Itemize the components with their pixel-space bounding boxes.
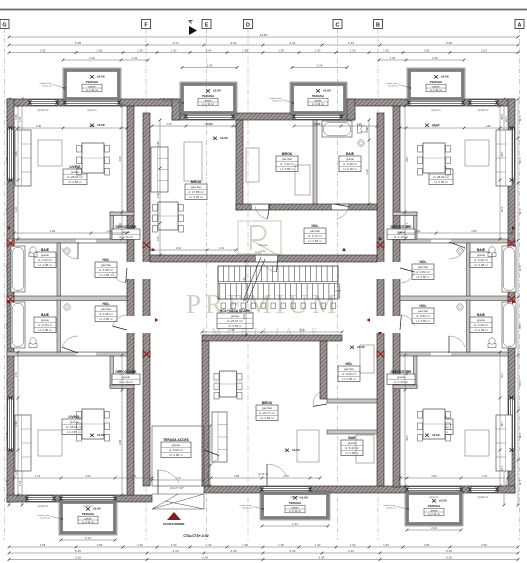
svg-text:izolatie term.: izolatie term. — [384, 504, 397, 507]
svg-text:4.00: 4.00 — [405, 156, 409, 162]
svg-text:gresie: gresie — [41, 253, 50, 257]
svg-text:A: 2.16 m²: A: 2.16 m² — [289, 509, 301, 513]
svg-text:gresie: gresie — [231, 314, 240, 318]
svg-text:BAIE: BAIE — [477, 313, 486, 317]
svg-text:TERASA: TERASA — [289, 501, 302, 505]
svg-text:ACCES IMOBIL: ACCES IMOBIL — [163, 522, 186, 526]
svg-text:TERASA ACCES: TERASA ACCES — [163, 438, 190, 442]
svg-text:gresie: gresie — [348, 441, 357, 445]
svg-text:parchet: parchet — [282, 157, 292, 161]
svg-text:±0.00: ±0.00 — [439, 499, 447, 503]
svg-text:1.70: 1.70 — [518, 158, 522, 164]
svg-text:204.10° 105°: 204.10° 105° — [170, 487, 184, 490]
svg-text:hp=30 cm: hp=30 cm — [40, 518, 50, 520]
svg-text:5.25: 5.25 — [446, 556, 452, 560]
svg-text:hp=90 cm: hp=90 cm — [478, 109, 489, 112]
svg-text:1.70: 1.70 — [500, 372, 504, 378]
svg-text:2.24: 2.24 — [289, 41, 295, 45]
svg-text:0.80: 0.80 — [500, 114, 504, 120]
svg-text:H: 2.65 m: H: 2.65 m — [416, 275, 430, 279]
svg-text:1.95: 1.95 — [500, 421, 504, 427]
svg-text:D: D — [246, 23, 250, 29]
svg-text:2.20: 2.20 — [518, 323, 522, 329]
svg-text:1.20: 1.20 — [156, 236, 160, 242]
svg-text:hp=30 cm: hp=30 cm — [388, 86, 398, 88]
svg-text:1.30: 1.30 — [405, 370, 409, 376]
svg-text:A: 5.40 m²: A: 5.40 m² — [345, 446, 359, 450]
svg-text:2.95: 2.95 — [471, 229, 477, 233]
svg-text:izolatie term.: izolatie term. — [240, 504, 253, 507]
svg-text:3.34: 3.34 — [202, 556, 208, 560]
svg-text:2.00: 2.00 — [85, 474, 91, 478]
svg-text:1.80: 1.80 — [36, 124, 42, 128]
svg-text:izolatie term.: izolatie term. — [386, 82, 399, 85]
svg-text:2.55: 2.55 — [40, 543, 46, 547]
svg-text:H: 2.65 m: H: 2.65 m — [416, 319, 430, 323]
svg-text:1.55: 1.55 — [504, 117, 508, 123]
svg-text:1.04: 1.04 — [390, 56, 396, 60]
svg-text:A: 3.34 m²: A: 3.34 m² — [38, 258, 52, 262]
svg-text:1.80: 1.80 — [207, 122, 213, 126]
svg-text:2.13: 2.13 — [172, 41, 178, 45]
svg-text:1.70: 1.70 — [14, 469, 18, 475]
svg-text:A: 1.10 m²: A: 1.10 m² — [394, 380, 408, 384]
svg-text:A: 7.40 m²: A: 7.40 m² — [280, 162, 294, 166]
svg-text:H: 2.48 m: H: 2.48 m — [38, 263, 52, 267]
svg-text:2.20: 2.20 — [89, 124, 95, 128]
svg-text:HOL: HOL — [312, 224, 319, 228]
svg-text:parchet: parchet — [191, 185, 201, 189]
svg-text:chiuveta: chiuveta — [259, 244, 269, 247]
svg-text:H: 2.65 m: H: 2.65 m — [434, 180, 448, 184]
svg-text:gresie: gresie — [397, 375, 406, 379]
svg-text:B: B — [376, 23, 380, 29]
svg-text:1.70: 1.70 — [518, 480, 522, 486]
svg-text:A: 26.07 m²: A: 26.07 m² — [227, 319, 243, 323]
svg-text:1.80: 1.80 — [97, 543, 103, 547]
svg-text:hp=0 cm: hp=0 cm — [431, 109, 440, 112]
svg-text:A: 4.05 m²: A: 4.05 m² — [99, 312, 113, 316]
svg-text:LIVING: LIVING — [70, 165, 81, 169]
svg-text:A: 2.16 m²: A: 2.16 m² — [428, 512, 440, 516]
svg-text:1.70: 1.70 — [14, 372, 18, 378]
svg-text:1.85: 1.85 — [234, 474, 240, 478]
svg-text:H: 2.65 m: H: 2.65 m — [260, 416, 274, 420]
svg-text:A: 3.34 m²: A: 3.34 m² — [38, 323, 52, 327]
svg-text:3.95: 3.95 — [118, 439, 122, 445]
svg-text:1.30: 1.30 — [383, 543, 389, 547]
svg-text:1.30: 1.30 — [383, 49, 389, 53]
svg-text:A: 3.40 m²: A: 3.40 m² — [343, 162, 357, 166]
svg-text:±0.00: ±0.00 — [97, 123, 105, 127]
svg-text:2.24: 2.24 — [292, 522, 298, 526]
svg-text:1.04: 1.04 — [132, 56, 138, 60]
svg-text:A: 3.40 m²: A: 3.40 m² — [474, 258, 488, 262]
svg-text:H: 2.65 m: H: 2.65 m — [280, 167, 294, 171]
svg-text:±0.00: ±0.00 — [441, 75, 449, 79]
svg-text:1.30: 1.30 — [137, 49, 143, 53]
svg-text:BAIE: BAIE — [346, 152, 355, 156]
svg-text:parchet: parchet — [418, 265, 428, 269]
svg-text:hp/45 cm: hp/45 cm — [258, 473, 268, 476]
svg-text:TERASA: TERASA — [86, 80, 99, 84]
svg-text:1.35: 1.35 — [356, 122, 362, 126]
svg-text:4.10: 4.10 — [260, 249, 266, 253]
svg-text:1.70: 1.70 — [500, 465, 504, 471]
svg-text:1.80: 1.80 — [485, 124, 491, 128]
svg-text:1.30: 1.30 — [350, 49, 356, 53]
svg-text:2.13: 2.13 — [172, 549, 178, 553]
svg-text:3.95: 3.95 — [405, 435, 409, 441]
svg-text:A: 3.82 m²: A: 3.82 m² — [169, 448, 183, 452]
svg-text:2.20: 2.20 — [14, 206, 18, 212]
svg-text:A: 1.10 m²: A: 1.10 m² — [119, 235, 133, 239]
svg-text:BAIE: BAIE — [477, 248, 486, 252]
svg-text:izolatie term.: izolatie term. — [38, 514, 51, 517]
svg-text:2.15: 2.15 — [518, 209, 522, 215]
svg-text:HOL: HOL — [420, 260, 427, 264]
svg-text:2.40: 2.40 — [365, 169, 369, 175]
svg-text:2.24: 2.24 — [85, 536, 91, 540]
svg-text:TERASA: TERASA — [202, 94, 215, 98]
svg-text:±0.00: ±0.00 — [97, 75, 105, 79]
svg-text:2.05: 2.05 — [156, 192, 160, 198]
svg-text:1.95: 1.95 — [500, 151, 504, 157]
svg-text:hp=30 cm: hp=30 cm — [386, 508, 396, 510]
svg-text:parchet: parchet — [310, 229, 320, 233]
svg-text:H: 2.65 m: H: 2.65 m — [189, 195, 203, 199]
svg-text:A: 28.02 m²: A: 28.02 m² — [433, 175, 449, 179]
svg-text:E: E — [205, 23, 209, 29]
svg-text:A: 4.72 m²: A: 4.72 m² — [308, 234, 322, 238]
svg-text:H: 2.48 m: H: 2.48 m — [38, 328, 52, 332]
svg-text:1.95: 1.95 — [14, 151, 18, 157]
svg-text:A: 3.40 m²: A: 3.40 m² — [474, 323, 488, 327]
svg-text:BAR: BAR — [348, 436, 356, 440]
svg-text:0.80: 0.80 — [14, 114, 18, 120]
svg-text:A: 3.60 m²: A: 3.60 m² — [342, 372, 356, 376]
svg-text:2.53: 2.53 — [481, 49, 487, 53]
svg-text:A: 1.10 m²: A: 1.10 m² — [119, 380, 133, 384]
svg-text:1.38: 1.38 — [278, 49, 284, 53]
svg-text:1.80: 1.80 — [424, 49, 430, 53]
svg-text:CTA=CTS+-0.52: CTA=CTS+-0.52 — [183, 534, 208, 538]
svg-text:hp=90 cm: hp=90 cm — [38, 505, 49, 508]
svg-text:hp=30 cm: hp=30 cm — [42, 86, 52, 88]
svg-text:1.30: 1.30 — [137, 543, 143, 547]
svg-text:±0.00: ±0.00 — [213, 89, 221, 93]
svg-text:H: 2.48 m: H: 2.48 m — [474, 263, 488, 267]
svg-text:1.35: 1.35 — [131, 474, 137, 478]
svg-text:BIROU: BIROU — [191, 180, 202, 184]
svg-text:TERASA: TERASA — [428, 504, 441, 508]
svg-text:±0.00: ±0.00 — [220, 136, 228, 140]
svg-text:H: 2.65 m: H: 2.65 m — [308, 239, 322, 243]
svg-text:A: 2.16 m²: A: 2.16 m² — [430, 88, 442, 92]
svg-text:±0.00: ±0.00 — [357, 345, 365, 349]
svg-text:gresie: gresie — [122, 375, 131, 379]
svg-text:BIROU: BIROU — [262, 401, 273, 405]
svg-text:2.20: 2.20 — [500, 207, 504, 213]
svg-text:H: 2.65 m: H: 2.65 m — [342, 377, 356, 381]
svg-text:±0.00: ±0.00 — [432, 433, 440, 437]
svg-text:1.40: 1.40 — [315, 49, 321, 53]
svg-text:1.80: 1.80 — [315, 122, 321, 126]
svg-text:hp=30 cm: hp=30 cm — [272, 101, 282, 103]
svg-text:C: C — [336, 23, 340, 29]
svg-text:2.55: 2.55 — [40, 49, 46, 53]
svg-text:H: 2.65 m: H: 2.65 m — [228, 324, 242, 328]
svg-text:1.00: 1.00 — [118, 222, 122, 228]
svg-text:1.38: 1.38 — [242, 49, 248, 53]
svg-text:hp=90 cm: hp=90 cm — [478, 496, 489, 499]
svg-text:2.10: 2.10 — [518, 380, 522, 386]
svg-text:HOL: HOL — [346, 362, 353, 366]
svg-text:1.30: 1.30 — [118, 369, 122, 375]
svg-text:1.45: 1.45 — [518, 116, 522, 122]
svg-text:parchet: parchet — [418, 309, 428, 313]
svg-text:1.55: 1.55 — [18, 116, 22, 122]
svg-text:1.38: 1.38 — [242, 543, 248, 547]
svg-text:BIROU: BIROU — [282, 152, 293, 156]
svg-text:1.50: 1.50 — [206, 443, 210, 449]
svg-text:H: 2.65 m: H: 2.65 m — [169, 453, 183, 457]
svg-text:4.00: 4.00 — [118, 156, 122, 162]
svg-text:A: 3.83 m²: A: 3.83 m² — [416, 314, 430, 318]
svg-text:5.25: 5.25 — [446, 549, 452, 553]
svg-text:2.53: 2.53 — [481, 543, 487, 547]
svg-text:2.20: 2.20 — [432, 56, 438, 60]
svg-text:0.75: 0.75 — [206, 473, 210, 479]
svg-text:5.25: 5.25 — [75, 556, 81, 560]
svg-text:HOL: HOL — [103, 302, 110, 306]
svg-text:A: 28.02 m²: A: 28.02 m² — [66, 425, 82, 429]
svg-text:H: 2.40 m: H: 2.40 m — [343, 167, 357, 171]
svg-text:A: 2.16 m²: A: 2.16 m² — [312, 102, 324, 106]
svg-text:1.40: 1.40 — [206, 543, 212, 547]
svg-text:2.13: 2.13 — [348, 41, 354, 45]
svg-text:2.04: 2.04 — [431, 526, 437, 530]
svg-text:HOL: HOL — [420, 304, 427, 308]
svg-text:0.75: 0.75 — [365, 127, 369, 133]
svg-text:BAIE: BAIE — [41, 248, 50, 252]
svg-text:hp=0 cm: hp=0 cm — [83, 505, 92, 508]
svg-text:parchet: parchet — [262, 406, 272, 410]
svg-text:5.25: 5.25 — [446, 41, 452, 45]
svg-text:HOL: HOL — [103, 258, 110, 262]
svg-text:gresie: gresie — [477, 318, 486, 322]
svg-text:H: 2.65 m: H: 2.65 m — [99, 317, 113, 321]
svg-text:3.00: 3.00 — [299, 328, 305, 332]
svg-text:gresie: gresie — [477, 253, 486, 257]
svg-text:8.40: 8.40 — [335, 289, 341, 293]
svg-text:A: A — [518, 23, 522, 29]
svg-text:1.41: 1.41 — [106, 229, 112, 233]
svg-text:±0.00: ±0.00 — [292, 448, 300, 452]
svg-text:A: 2.16 m²: A: 2.16 m² — [86, 88, 98, 92]
svg-text:1.85: 1.85 — [518, 433, 522, 439]
svg-text:±0.00: ±0.00 — [97, 433, 105, 437]
svg-text:2.15: 2.15 — [518, 266, 522, 272]
svg-text:parchet: parchet — [101, 263, 111, 267]
svg-text:2.95: 2.95 — [50, 229, 56, 233]
svg-text:1.80: 1.80 — [156, 141, 160, 147]
svg-text:A: 2.16 m²: A: 2.16 m² — [202, 102, 214, 106]
svg-text:1.62: 1.62 — [18, 480, 22, 486]
svg-text:1.38: 1.38 — [278, 543, 284, 547]
svg-text:1.10: 1.10 — [219, 246, 225, 250]
svg-text:hp=30 cm: hp=30 cm — [242, 508, 252, 510]
svg-text:gresie: gresie — [41, 318, 50, 322]
svg-text:parchet: parchet — [101, 307, 111, 311]
svg-text:hp=0 cm: hp=0 cm — [429, 496, 438, 499]
svg-text:1.35: 1.35 — [242, 314, 246, 320]
svg-text:2.15: 2.15 — [230, 549, 236, 553]
svg-text:2.04: 2.04 — [207, 64, 213, 68]
svg-text:19.50: 19.50 — [260, 33, 268, 37]
svg-text:1.00: 1.00 — [405, 223, 409, 229]
svg-text:2.15: 2.15 — [289, 549, 295, 553]
svg-text:1.80: 1.80 — [424, 543, 430, 547]
svg-text:1.70: 1.70 — [35, 474, 41, 478]
svg-text:1.30: 1.30 — [350, 543, 356, 547]
svg-text:5.25: 5.25 — [75, 41, 81, 45]
svg-text:A: 20.77 m²: A: 20.77 m² — [259, 411, 275, 415]
svg-text:A: 28.02 m²: A: 28.02 m² — [67, 175, 83, 179]
svg-text:A: 17.88 m²: A: 17.88 m² — [188, 190, 204, 194]
svg-text:TERASA: TERASA — [82, 512, 95, 516]
svg-text:1.41: 1.41 — [415, 229, 421, 233]
svg-text:2.26: 2.26 — [229, 328, 235, 332]
svg-text:izolatie term.: izolatie term. — [160, 97, 173, 100]
svg-text:±0.00: ±0.00 — [323, 89, 331, 93]
svg-text:±0.00: ±0.00 — [93, 507, 101, 511]
svg-text:H: 2.48 m: H: 2.48 m — [474, 328, 488, 332]
svg-text:H: 2.65 m: H: 2.65 m — [67, 430, 81, 434]
svg-text:A: 2.16 m²: A: 2.16 m² — [82, 520, 94, 524]
svg-text:1.70: 1.70 — [175, 476, 181, 480]
svg-text:H: 2.65 m: H: 2.65 m — [68, 180, 82, 184]
svg-text:BAIE: BAIE — [41, 313, 50, 317]
svg-text:1.95: 1.95 — [14, 421, 18, 427]
svg-text:H: 2.65 m: H: 2.65 m — [99, 273, 113, 277]
svg-text:1.40: 1.40 — [315, 543, 321, 547]
svg-text:PREMIUM: PREMIUM — [186, 289, 340, 319]
svg-text:TERASA: TERASA — [312, 94, 325, 98]
svg-text:TERASA: TERASA — [430, 80, 443, 84]
svg-text:2.24: 2.24 — [230, 41, 236, 45]
svg-text:3.34: 3.34 — [318, 556, 324, 560]
svg-text:2.04: 2.04 — [317, 64, 323, 68]
svg-text:1.30: 1.30 — [171, 49, 177, 53]
svg-text:2.20: 2.20 — [432, 124, 438, 128]
svg-text:2.20: 2.20 — [89, 56, 95, 60]
svg-text:1.30: 1.30 — [171, 543, 177, 547]
svg-text:izolatie term.: izolatie term. — [270, 97, 283, 100]
svg-text:1.40: 1.40 — [206, 49, 212, 53]
svg-text:2.00: 2.00 — [431, 474, 437, 478]
svg-text:2.13: 2.13 — [348, 549, 354, 553]
svg-text:2.10: 2.10 — [176, 246, 182, 250]
svg-text:1.25: 1.25 — [166, 122, 172, 126]
svg-text:G: G — [2, 23, 6, 29]
svg-text:hp=0 cm: hp=0 cm — [290, 496, 299, 499]
svg-text:izolatie term.: izolatie term. — [40, 82, 53, 85]
svg-text:1.70: 1.70 — [482, 474, 488, 478]
svg-text:gresie: gresie — [346, 157, 355, 161]
svg-text:gresie: gresie — [172, 443, 181, 447]
svg-text:±0.00: ±0.00 — [300, 496, 308, 500]
svg-text:hp=30 cm: hp=30 cm — [162, 101, 172, 103]
svg-text:A: 4.05 m²: A: 4.05 m² — [99, 268, 113, 272]
svg-text:A: 3.83 m²: A: 3.83 m² — [416, 270, 430, 274]
svg-text:2.50: 2.50 — [283, 474, 289, 478]
svg-text:1.43: 1.43 — [242, 277, 246, 283]
svg-text:5.25: 5.25 — [75, 549, 81, 553]
svg-text:gresie: gresie — [71, 170, 80, 174]
svg-text:hp=90 cm: hp=90 cm — [38, 109, 49, 112]
svg-text:1.80: 1.80 — [97, 49, 103, 53]
svg-text:H: 2.65 m: H: 2.65 m — [345, 451, 359, 455]
svg-text:hp=0 cm: hp=0 cm — [87, 109, 96, 112]
svg-text:HOL+CASA SCARII: HOL+CASA SCARII — [220, 309, 250, 313]
svg-text:parchet: parchet — [344, 367, 354, 371]
